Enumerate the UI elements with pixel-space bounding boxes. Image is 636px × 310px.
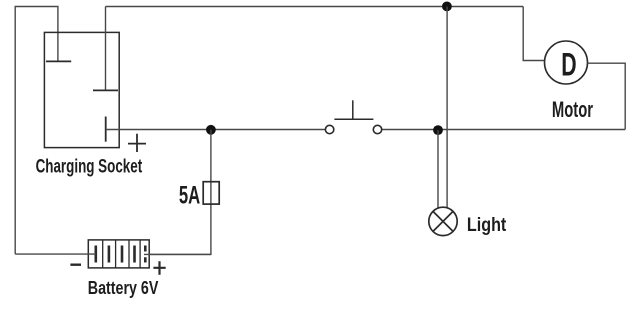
- wire: top rail down to motor left lead: [523, 7, 545, 61]
- junction dot on middle rail (fuse/battery tap): [206, 125, 216, 135]
- svg-text:Light: Light: [467, 214, 506, 236]
- charging socket contact 2 bar: [93, 89, 118, 91]
- charging socket contact 2 stem from top wire: [105, 7, 107, 91]
- switch actuator bar: [334, 118, 373, 120]
- wire: lamp left lead from middle rail junction: [437, 130, 439, 208]
- svg-text:Motor: Motor: [552, 97, 593, 122]
- battery short electrode bars: [96, 246, 146, 263]
- wire: battery negative lead: [15, 253, 96, 255]
- svg-text:Charging Socket: Charging Socket: [36, 155, 143, 177]
- wire: middle rail from switch right terminal to right side: [382, 129, 626, 131]
- switch left terminal circle: [325, 125, 333, 133]
- motor circle: [545, 41, 588, 84]
- junction dot on top rail (lamp tap): [442, 2, 452, 12]
- wire: top rail from socket contact 2 to motor corner: [106, 6, 524, 8]
- lamp X cross: [433, 211, 453, 231]
- switch actuator stem: [352, 100, 354, 119]
- lamp circle: [429, 207, 457, 235]
- svg-text:D: D: [561, 46, 576, 83]
- battery cell divider plates: [103, 240, 140, 268]
- charging socket contact 1 bar: [46, 60, 71, 62]
- wire: lamp right lead from top rail junction: [446, 7, 448, 209]
- svg-text:5A: 5A: [179, 183, 200, 210]
- junction dot on middle rail (lamp tap): [433, 125, 443, 135]
- battery minus sign: [70, 264, 81, 266]
- wire: battery negative up left side and across top to socket contact 1: [15, 7, 58, 255]
- switch right terminal circle: [373, 125, 381, 133]
- battery plus sign: [153, 261, 165, 275]
- wire: middle rail junction down through fuse to battery positive: [149, 130, 211, 255]
- charging socket body rectangle: [44, 32, 119, 147]
- charging socket contact 3 plate: [105, 117, 107, 142]
- plus polarity mark at socket output: [128, 134, 146, 152]
- wire: motor right lead down right side to middle wire: [588, 63, 626, 129]
- fuse rectangle: [203, 182, 219, 204]
- wire: battery positive lead stub: [144, 253, 211, 255]
- svg-text:Battery 6V: Battery 6V: [88, 278, 159, 298]
- battery outer box: [88, 240, 149, 268]
- wire: socket contact 3 to switch left terminal (middle wire left): [106, 129, 326, 131]
